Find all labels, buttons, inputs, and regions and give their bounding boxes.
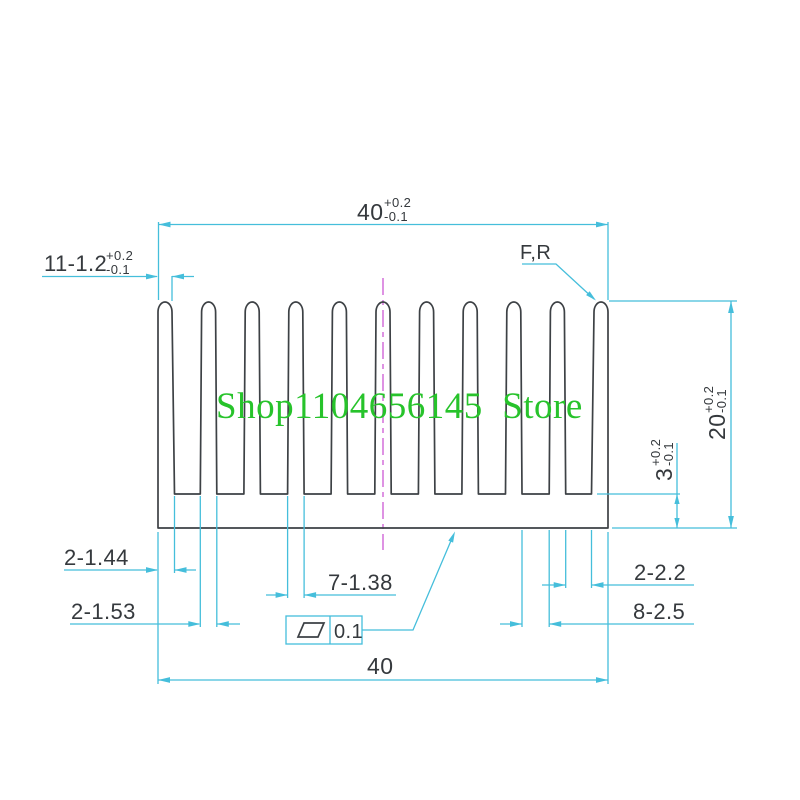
dimension 40 top dimension line — [159, 224, 609, 226]
heatsink profile outline — [158, 302, 608, 528]
dimension text 20 +0.2 -0.1 rotated — [701, 386, 730, 440]
dimension 8-2.5 extension lines — [521, 530, 523, 627]
dimension 2-1.53 extension lines — [199, 496, 201, 627]
dimension 40 bottom extension lines — [157, 532, 159, 684]
centerline — [382, 278, 384, 550]
flatness feature control frame — [286, 616, 362, 644]
svg-text:-0.1: -0.1 — [714, 389, 729, 413]
svg-text:-0.1: -0.1 — [106, 262, 130, 277]
dimension 20 extension line top — [609, 300, 737, 302]
dimension 3 dimension line — [676, 443, 678, 528]
flatness symbol — [298, 623, 324, 637]
svg-text:Shop1104656145 Store: Shop1104656145 Store — [216, 386, 583, 427]
dimension 3 extension line — [597, 493, 680, 495]
svg-text:40: 40 — [357, 199, 383, 225]
dimension 2-1.53 dimension line — [70, 623, 199, 625]
dimension 2-2.2 extension lines — [565, 530, 567, 588]
dimension 2-1.44 dimension line — [64, 569, 157, 571]
svg-text:2-2.2: 2-2.2 — [634, 560, 686, 585]
svg-text:11-1.2: 11-1.2 — [44, 251, 107, 276]
svg-text:40: 40 — [367, 653, 393, 679]
svg-text:8-2.5: 8-2.5 — [633, 599, 685, 624]
flatness leader — [362, 536, 453, 630]
dimension text 3 +0.2 -0.1 rotated — [648, 439, 677, 481]
dimension 7-1.38 extension lines — [287, 496, 289, 598]
dimension 11-1.2 dimension line — [42, 276, 157, 278]
dimension 20 dimension line — [730, 301, 732, 528]
dimension 40 bottom dimension line — [158, 679, 608, 681]
svg-text:2-1.44: 2-1.44 — [64, 545, 129, 570]
dimension 20 extension line bottom — [612, 527, 737, 529]
svg-text:20: 20 — [704, 414, 730, 440]
svg-text:+0.2: +0.2 — [384, 195, 411, 210]
svg-text:0.1: 0.1 — [334, 621, 363, 643]
dimension 2-2.2 dimension line — [542, 584, 566, 586]
svg-text:3: 3 — [651, 468, 677, 481]
dimension 7-1.38 dimension line — [266, 594, 288, 596]
dimension 40 top extension line right — [607, 222, 609, 300]
svg-text:-0.1: -0.1 — [661, 442, 676, 466]
dimension 11-1.2 extension line — [171, 276, 173, 301]
svg-text:+0.2: +0.2 — [106, 248, 133, 263]
dimension 8-2.5 dimension line — [500, 623, 522, 625]
dimension 40 top extension line left — [158, 222, 160, 300]
svg-text:2-1.53: 2-1.53 — [71, 599, 136, 624]
dimension 2-1.44 extension line — [174, 496, 176, 573]
leader F,R — [522, 264, 594, 299]
svg-text:-0.1: -0.1 — [384, 209, 408, 224]
svg-text:7-1.38: 7-1.38 — [328, 570, 393, 595]
svg-text:F,R: F,R — [520, 242, 551, 264]
